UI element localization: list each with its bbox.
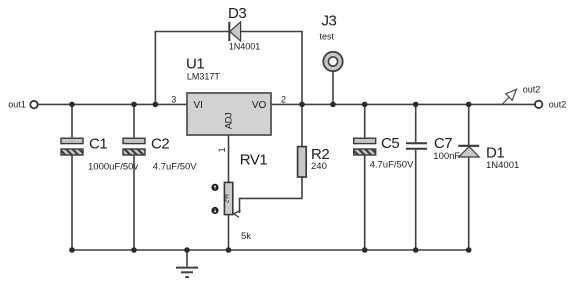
svg-text:C5: C5 — [381, 135, 399, 152]
svg-text:VO: VO — [252, 100, 267, 111]
svg-text:240: 240 — [311, 161, 327, 172]
svg-text:RV1: RV1 — [240, 152, 268, 169]
svg-text:4.7uF/50V: 4.7uF/50V — [370, 159, 414, 170]
svg-text:5k: 5k — [241, 231, 251, 242]
svg-text:C7: C7 — [434, 135, 452, 152]
svg-text:4.7uF/50V: 4.7uF/50V — [153, 161, 197, 172]
svg-text:LM317T: LM317T — [187, 72, 221, 82]
svg-text:2: 2 — [281, 95, 286, 105]
svg-text:1N4001: 1N4001 — [229, 42, 261, 52]
svg-text:J3: J3 — [322, 13, 337, 30]
svg-text:VI: VI — [194, 100, 203, 111]
svg-text:U1: U1 — [186, 56, 204, 73]
svg-text:D3: D3 — [228, 5, 246, 22]
svg-text:out2: out2 — [523, 85, 541, 95]
svg-text:1000uF/50v: 1000uF/50v — [88, 161, 138, 172]
svg-text:out1: out1 — [8, 99, 26, 109]
svg-text:1N4001: 1N4001 — [486, 160, 519, 171]
svg-text:ADJ: ADJ — [223, 112, 234, 129]
svg-text:2%: 2% — [224, 194, 231, 204]
svg-text:C1: C1 — [89, 135, 107, 152]
svg-text:3: 3 — [171, 94, 176, 104]
svg-text:100nF: 100nF — [433, 151, 460, 162]
svg-text:C2: C2 — [151, 135, 169, 152]
svg-text:test: test — [320, 31, 335, 41]
svg-text:out2: out2 — [549, 100, 567, 110]
svg-text:1: 1 — [217, 147, 227, 152]
